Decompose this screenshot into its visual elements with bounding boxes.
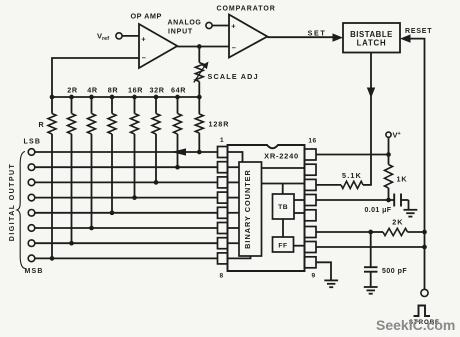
wire pin4 to counter: [228, 197, 240, 199]
label 32R: [150, 86, 165, 95]
wire pin10 row: [316, 246, 425, 248]
svg-text:4R: 4R: [87, 86, 98, 95]
resistor 128R: [195, 95, 203, 155]
pin box 12: [305, 210, 317, 221]
terminal Vref: [116, 33, 122, 39]
resistor 8R: [108, 95, 116, 215]
terminal ANALOG INPUT: [206, 22, 212, 28]
flip-flop FF block: [273, 237, 294, 252]
svg-text:MSB: MSB: [25, 268, 44, 275]
resistor 16R: [131, 95, 139, 200]
arrow on LSB line: [172, 148, 187, 155]
wire pin7 to counter: [228, 242, 240, 244]
label SET: [308, 29, 327, 38]
resistor 4R: [88, 95, 96, 231]
label 500pF: [382, 268, 407, 275]
wire counter to pin15: [262, 167, 305, 169]
wire counter to pin8: [228, 256, 251, 258]
wire Vref to op-amp +: [122, 35, 139, 37]
wire TB to pin13: [294, 199, 305, 201]
svg-text:500 pF: 500 pF: [382, 268, 407, 275]
pin box 6: [218, 223, 228, 234]
label ANALOG INPUT: [168, 20, 202, 36]
node V+/pin16: [386, 152, 391, 157]
terminal output bit 3: [28, 179, 35, 186]
terminal output bit 2: [28, 164, 35, 171]
digital output brace: [17, 152, 25, 269]
ground at 0.01uF: [404, 210, 418, 217]
wire pin1 to counter: [228, 152, 243, 162]
wire digital output row 5: [35, 212, 218, 214]
pin box 13: [305, 195, 317, 206]
terminal output bit 8: [28, 255, 35, 262]
label COMPARATOR: [217, 6, 276, 13]
pin box 15: [305, 164, 317, 175]
label 4R: [87, 86, 98, 95]
bistable latch U3: [343, 23, 400, 53]
svg-text:OP AMP: OP AMP: [131, 11, 162, 20]
terminal V+: [386, 132, 391, 137]
label 128R: [209, 120, 230, 129]
resistor 2K: [316, 228, 425, 235]
terminal output bit 1: [28, 149, 35, 156]
node scale-adj tap: [197, 44, 202, 49]
pin box 14: [305, 179, 317, 190]
wire pin16 to V+ node: [316, 154, 389, 156]
resistor 5.1K: [316, 181, 372, 188]
IC XR-2240 body: [228, 145, 305, 271]
terminal output bit 7: [28, 240, 35, 247]
wire digital output row 1: [35, 151, 218, 153]
svg-text:1K: 1K: [397, 175, 408, 184]
wire digital output row 3: [35, 181, 218, 183]
svg-text:1: 1: [220, 137, 224, 144]
strobe pulse icon: [414, 306, 431, 317]
svg-text:RESET: RESET: [405, 28, 432, 35]
label V+: [393, 131, 401, 140]
node pin10/strobe line: [422, 245, 427, 250]
label 2R: [67, 86, 78, 95]
label 2K: [392, 218, 403, 227]
node 2K/strobe line: [422, 230, 427, 235]
svg-text:FF: FF: [278, 243, 287, 250]
resistor R: [48, 95, 56, 261]
wire TB to pin12: [294, 212, 305, 214]
label R: [39, 120, 45, 129]
svg-text:BINARY COUNTER: BINARY COUNTER: [243, 169, 252, 249]
capacitor 0.01uF: [389, 194, 409, 210]
wire latch output: [370, 53, 372, 185]
svg-text:COMPARATOR: COMPARATOR: [217, 6, 276, 13]
wire TB to FF: [282, 219, 284, 237]
wire pin5 to counter: [228, 212, 240, 214]
wire counter to pin14 and TB: [262, 184, 305, 195]
label Vref: [97, 31, 109, 42]
pin box 9: [305, 257, 317, 268]
terminal output bit 5: [28, 210, 35, 217]
node 2K/500pF: [368, 230, 373, 235]
svg-text:2K: 2K: [392, 218, 403, 227]
wire V+ to node: [388, 138, 390, 155]
svg-text:SeekIC.com: SeekIC.com: [376, 317, 455, 333]
label DIGITAL OUTPUT: [9, 163, 16, 241]
terminal output bit 4: [28, 194, 35, 201]
pin box 8: [218, 253, 228, 264]
wire op-amp output: [177, 46, 229, 48]
svg-text:XR-2240: XR-2240: [264, 151, 299, 160]
terminal STROBE: [421, 289, 428, 296]
svg-text:TB: TB: [278, 204, 288, 211]
label 8R: [108, 86, 119, 95]
wire op-amp feedback: [52, 58, 139, 97]
svg-text:INPUT: INPUT: [168, 29, 193, 36]
binary counter block: [239, 162, 262, 256]
svg-text:16R: 16R: [128, 86, 143, 95]
pin box 3: [218, 177, 228, 188]
resistor 2R: [68, 95, 76, 246]
node 1K/pin13/cap: [386, 198, 391, 203]
wire pin6 to counter: [228, 227, 240, 229]
label 0.01uF: [365, 207, 392, 214]
capacitor 500pF: [364, 232, 378, 287]
wire analog input to comparator +: [212, 25, 229, 27]
svg-text:64R: 64R: [171, 86, 186, 95]
pin box 16: [305, 149, 317, 160]
resistor 64R: [174, 95, 182, 170]
svg-text:SET: SET: [308, 29, 327, 38]
svg-text:16: 16: [308, 138, 316, 145]
svg-text:8R: 8R: [108, 86, 119, 95]
wire FF to pin10: [294, 245, 305, 247]
ground at 500pF: [364, 287, 378, 294]
svg-text:+: +: [231, 22, 236, 31]
svg-text:–: –: [232, 43, 237, 52]
svg-text:DIGITAL OUTPUT: DIGITAL OUTPUT: [9, 163, 16, 241]
svg-text:5.1K: 5.1K: [342, 171, 362, 180]
wire digital output row 2: [35, 166, 218, 168]
svg-text:32R: 32R: [150, 86, 165, 95]
label 1K: [397, 175, 408, 184]
ground at pin9: [324, 280, 338, 287]
label XR-2240: [264, 151, 299, 160]
svg-text:–: –: [142, 53, 147, 62]
label SCALE ADJ: [208, 72, 259, 81]
wire pin2 to counter: [228, 166, 240, 168]
comparator U2: [229, 15, 267, 58]
wire RESET from strobe line: [408, 39, 425, 290]
label 16R: [128, 86, 143, 95]
svg-text:2R: 2R: [67, 86, 78, 95]
svg-text:LSB: LSB: [24, 138, 42, 145]
pin box 10: [305, 242, 317, 253]
resistor 32R: [152, 95, 160, 185]
label MSB: [25, 268, 44, 275]
op-amp U1: [139, 24, 177, 68]
svg-text:SCALE ADJ: SCALE ADJ: [208, 72, 259, 81]
wire digital output row 7: [35, 242, 218, 244]
wire pin9 to ground: [316, 262, 331, 280]
pin box 7: [218, 238, 228, 249]
time base TB block: [273, 194, 295, 219]
svg-text:8: 8: [219, 273, 223, 280]
pin number 1: [220, 137, 224, 144]
RESET arrowhead: [400, 34, 411, 42]
label RESET: [405, 28, 432, 35]
wire pin3 to counter: [228, 181, 240, 183]
wire pin13 row: [316, 199, 389, 201]
svg-text:128R: 128R: [209, 120, 230, 129]
rheostat SCALE ADJ: [194, 47, 209, 98]
wire comparator output SET: [267, 36, 336, 38]
label LSB: [24, 138, 42, 145]
pin number 16: [308, 138, 316, 145]
svg-text:9: 9: [311, 273, 315, 280]
latch output arrowhead: [367, 88, 375, 99]
wire digital output row 6: [35, 227, 218, 229]
wire resistor bus: [52, 96, 199, 98]
svg-text:ANALOG: ANALOG: [168, 20, 202, 27]
terminal output bit 6: [28, 225, 35, 232]
pin number 8: [219, 273, 223, 280]
pin box 1: [218, 147, 228, 158]
svg-text:R: R: [39, 120, 45, 129]
resistor 1K: [385, 155, 393, 201]
svg-text:LATCH: LATCH: [357, 39, 387, 48]
pin box 4: [218, 192, 228, 203]
pin number 9: [311, 273, 315, 280]
label 64R: [171, 86, 186, 95]
label STROBE: [409, 319, 440, 326]
label 5.1K: [342, 171, 362, 180]
label OP AMP: [131, 11, 162, 20]
pin box 11: [305, 227, 317, 238]
pin box 5: [218, 207, 228, 218]
SET arrowhead: [333, 33, 344, 41]
pin box 2: [218, 162, 228, 173]
svg-text:+: +: [141, 35, 146, 44]
svg-text:0.01 μF: 0.01 μF: [365, 207, 392, 214]
wire digital output row 8: [35, 257, 218, 259]
watermark SeekIC.com: [376, 317, 455, 333]
wire digital output row 4: [35, 197, 218, 199]
